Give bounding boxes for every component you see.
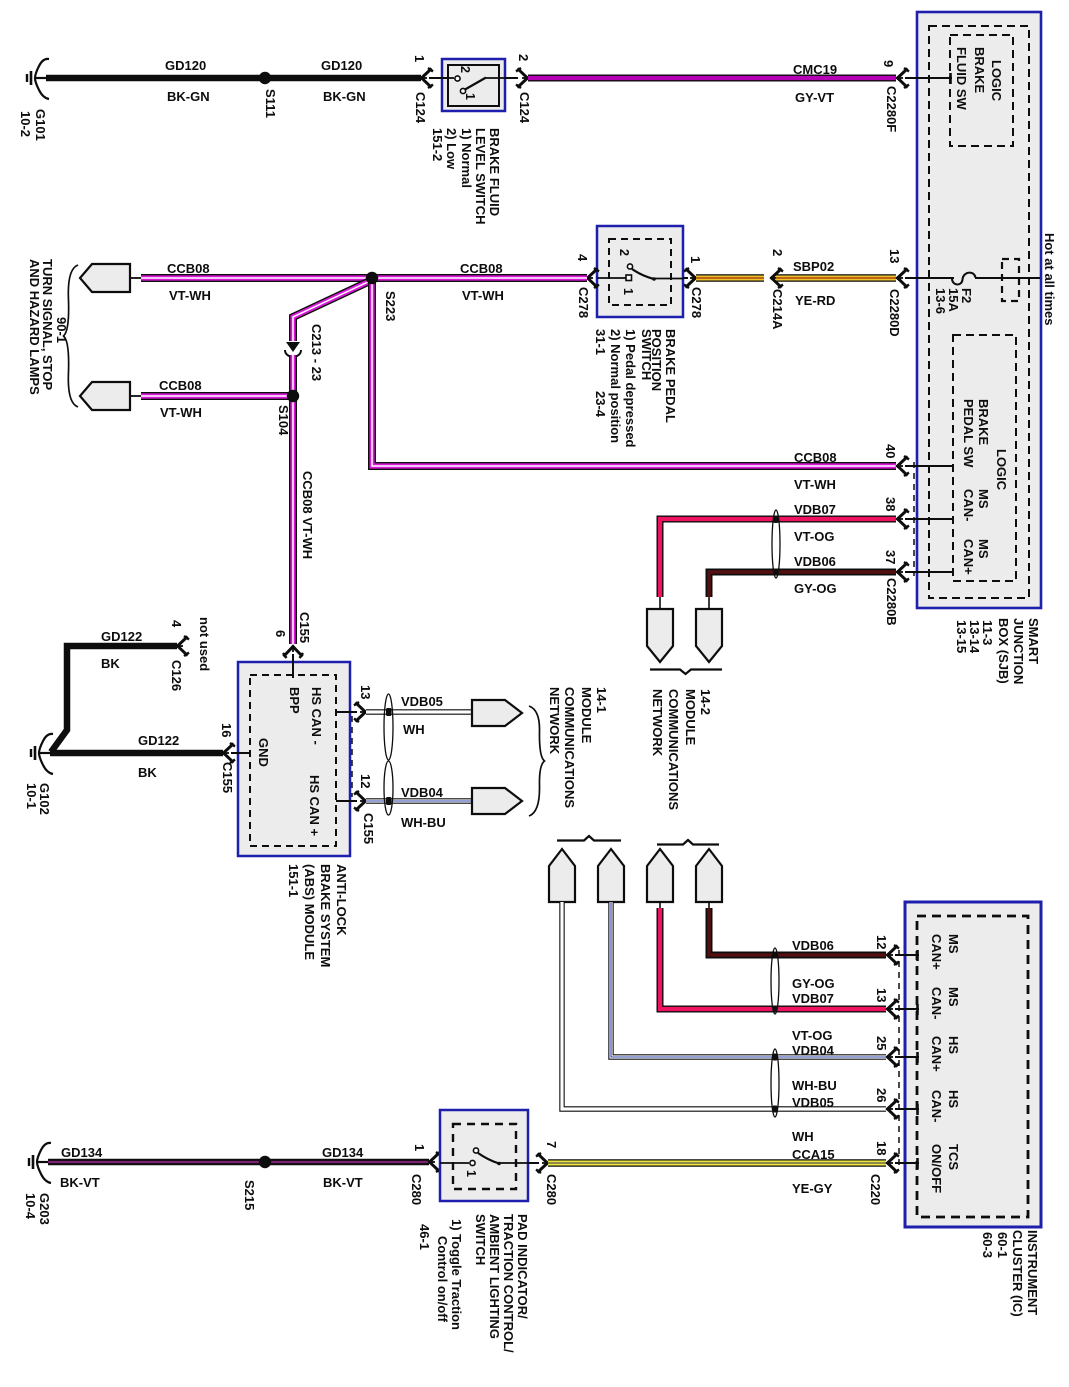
svg-text:C155: C155 (361, 813, 376, 844)
inline connector C214A (770, 268, 783, 288)
label INSTRUMENT CLUSTER (IC) 60-1 60-3 (980, 1230, 1040, 1317)
pin label 1 (pad switch) (464, 1170, 478, 1177)
svg-text:37: 37 (883, 550, 898, 564)
wire stub pin 13 (IC) (895, 1004, 919, 1015)
svg-text:BK-GN: BK-GN (323, 89, 366, 104)
wire VDB04 (ABS to 14-1 connector) (366, 798, 472, 803)
svg-text:C155: C155 (297, 612, 312, 643)
svg-text:VDB07: VDB07 (794, 502, 836, 517)
wire stub pin 37 (905, 571, 953, 573)
svg-text:GD120: GD120 (321, 58, 362, 73)
label GD122 BK (lower) (138, 733, 179, 780)
svg-text:HS CAN -: HS CAN - (309, 687, 324, 745)
svg-text:GD120: GD120 (165, 58, 206, 73)
wire stub pin 9 into SJB (905, 73, 952, 84)
label C220 (868, 1174, 883, 1205)
svg-text:TCS: TCS (946, 1144, 961, 1170)
pin label 2 (bpp switch) (617, 249, 631, 256)
wire stub pin 13 (ABS) (336, 711, 357, 713)
pin 4 of C126 (169, 620, 189, 656)
wire SBP02 segment (C214A to SJB pin 13) (776, 274, 896, 282)
splice S111 (259, 72, 271, 84)
label BPP (287, 687, 302, 714)
svg-text:VDB04: VDB04 (401, 785, 444, 800)
svg-text:S215: S215 (242, 1180, 257, 1210)
svg-text:2) Normal position: 2) Normal position (608, 329, 623, 443)
wire stub pin 6 into ABS (292, 654, 294, 678)
connector arrow to IC (VDB06) (696, 849, 722, 902)
connector C220 dashed group line (898, 950, 900, 1168)
svg-text:CMC19: CMC19 (793, 62, 837, 77)
svg-text:VT-OG: VT-OG (794, 529, 834, 544)
pin label 2 inside switch (458, 66, 472, 73)
label CCB08 VT-WH (lower) (159, 378, 202, 420)
pin 26 of C220 (874, 1088, 899, 1119)
switch contact 1 (C124) (460, 88, 465, 93)
label C124 (right) (517, 92, 532, 124)
label TCS ON/OFF (929, 1144, 961, 1193)
svg-text:(ABS) MODULE: (ABS) MODULE (302, 864, 317, 960)
fuse holder dashed box (1002, 259, 1019, 301)
svg-text:1: 1 (412, 55, 427, 62)
wire CCB08 (upper lamp to S223) (141, 274, 372, 282)
wire stub pin 26 (IC) (895, 1104, 919, 1115)
svg-text:MODULE: MODULE (579, 687, 594, 744)
svg-text:not used: not used (197, 617, 212, 671)
wire CCB08 (S104 down to ABS pin 6) (289, 396, 297, 644)
wire stub pin 40 (905, 465, 953, 467)
pin 13 of C155 (354, 685, 373, 722)
wire GD134 (G203 to S215) (48, 1159, 265, 1166)
label VDB07 VT-OG (IC) (792, 991, 834, 1043)
pin label 1 (bpp switch) (621, 288, 635, 295)
svg-text:HS: HS (946, 1036, 961, 1054)
svg-text:MS: MS (946, 934, 961, 954)
svg-text:2: 2 (458, 66, 472, 73)
label TURN SIGNAL STOP AND HAZARD LAMPS (27, 259, 55, 395)
label SBP02 YE-RD (793, 259, 835, 308)
wire GD122 (G102 to ABS pin 16) (50, 750, 223, 757)
svg-text:1: 1 (688, 256, 703, 263)
pin 2 of C124 (505, 54, 531, 88)
svg-text:2: 2 (770, 249, 785, 256)
brake pedal position switch box (597, 226, 683, 317)
svg-text:CCB08 VT-WH: CCB08 VT-WH (300, 471, 315, 559)
label C214A (770, 289, 785, 330)
svg-text:WH: WH (792, 1129, 814, 1144)
bracket 14-2 network (650, 670, 722, 675)
svg-text:C220: C220 (868, 1174, 883, 1205)
label S111 (263, 89, 278, 118)
svg-text:1: 1 (412, 1144, 427, 1151)
svg-text:C126: C126 (169, 660, 184, 691)
svg-text:C155: C155 (220, 762, 235, 793)
brake pedal sw logic dashed box (953, 335, 1016, 581)
svg-text:VT-WH: VT-WH (169, 288, 211, 303)
wire CCB08 (lower lamp to S104) (141, 392, 293, 400)
svg-text:C2280D: C2280D (887, 289, 902, 337)
svg-text:HS CAN +: HS CAN + (307, 775, 322, 836)
svg-text:WH-BU: WH-BU (792, 1078, 837, 1093)
label C278 (left) (576, 287, 591, 318)
svg-text:SMART: SMART (1026, 618, 1041, 664)
label VDB06 GY-OG (IC) (792, 938, 835, 991)
svg-text:25: 25 (874, 1036, 889, 1050)
svg-text:C278: C278 (689, 287, 704, 318)
label 46-1 (417, 1224, 432, 1250)
connector C155 dashed group line (351, 716, 353, 797)
label C126 (169, 660, 184, 691)
ABS module box (238, 662, 350, 856)
svg-text:VDB06: VDB06 (792, 938, 834, 953)
svg-text:LOGIC: LOGIC (989, 60, 1004, 102)
label HS CAN + (ABS) (307, 775, 322, 836)
svg-text:WH: WH (403, 722, 425, 737)
wire CMC19 (C124 to SJB pin 9) (528, 75, 896, 82)
svg-text:60-3: 60-3 (980, 1232, 995, 1258)
twisted pair symbol (VDB05/VDB04 at ABS) (384, 694, 393, 815)
svg-text:S223: S223 (383, 291, 398, 321)
svg-text:VDB07: VDB07 (792, 991, 834, 1006)
wire GD134 (S215 to C280 pin 1) (265, 1159, 429, 1166)
label C124 (left) (413, 92, 428, 124)
label S215 (242, 1180, 257, 1210)
splice S223 (366, 272, 378, 284)
svg-text:CAN+: CAN+ (929, 934, 944, 970)
svg-text:1: 1 (463, 93, 477, 100)
svg-text:BK-GN: BK-GN (167, 89, 210, 104)
SJB box (917, 12, 1041, 608)
svg-text:23-4: 23-4 (593, 391, 608, 418)
svg-text:GD122: GD122 (101, 629, 142, 644)
label CCB08 VT-WH (pin 40) (794, 450, 837, 492)
pin 1 of C278 (683, 256, 703, 288)
svg-text:C124: C124 (413, 92, 428, 124)
svg-text:13-6: 13-6 (933, 288, 948, 314)
label C213 - 23 (309, 324, 324, 381)
svg-text:C124: C124 (517, 92, 532, 124)
wire stub pin 12 (IC) (895, 950, 919, 961)
connector C2280B dashed group line (913, 462, 915, 576)
pin 12 of C155 (354, 774, 373, 811)
label G102 10-1 (24, 783, 52, 815)
label Hot at all times (1042, 233, 1057, 325)
svg-text:12: 12 (358, 774, 373, 788)
label C2280D (887, 289, 902, 337)
svg-text:NETWORK: NETWORK (547, 687, 562, 755)
svg-text:C2280B: C2280B (884, 578, 899, 626)
svg-text:BK-VT: BK-VT (60, 1175, 100, 1190)
label GD122 BK (upper) (101, 629, 142, 671)
wire VDB06 (SJB pin 37 to connector) (709, 572, 896, 610)
wire VDB06 (connector to IC pin 12) (709, 902, 886, 955)
svg-text:MS: MS (976, 489, 991, 509)
svg-text:ON/OFF: ON/OFF (929, 1144, 944, 1193)
wire stub pin 25 (IC) (895, 1052, 919, 1063)
label CMC19 GY-VT (793, 62, 837, 105)
svg-text:1) Pedal depressed: 1) Pedal depressed (623, 329, 638, 448)
svg-text:13: 13 (874, 988, 889, 1002)
svg-text:CCA15: CCA15 (792, 1147, 835, 1162)
inline connector C213-23 (285, 342, 301, 357)
label GD120 BK-GN (right) (321, 58, 366, 104)
connector arrow 14-1 (VDB04) (472, 788, 522, 814)
svg-text:COMMUNICATIONS: COMMUNICATIONS (562, 687, 577, 808)
label C2280F (884, 86, 899, 132)
svg-text:C214A: C214A (770, 289, 785, 330)
svg-text:60-1: 60-1 (995, 1232, 1010, 1258)
pin 13 of C2280D (887, 249, 909, 288)
wire stub pin 13 to fuse (905, 277, 954, 279)
svg-text:31-1: 31-1 (593, 329, 608, 355)
label C280 (right) (544, 1174, 559, 1205)
label SMART JUNCTION BOX (SJB) (954, 618, 1041, 684)
label 14-1 MODULE COMMUNICATIONS NETWORK (547, 687, 609, 808)
label CCB08 VT-WH (vertical) (300, 471, 315, 559)
svg-text:WH-BU: WH-BU (401, 815, 446, 830)
label MS CAN+ (961, 539, 991, 575)
label VDB05 WH (IC) (792, 1095, 834, 1144)
wire VDB07 (SJB pin 38 to connector) (660, 519, 896, 610)
splice S104 (287, 390, 299, 402)
label C155 (pin 16) (220, 762, 235, 793)
pin 7 of C280 (528, 1141, 559, 1173)
svg-text:46-1: 46-1 (417, 1224, 432, 1250)
bracket 14-2 network (lower) (657, 840, 719, 845)
label S223 (383, 291, 398, 321)
svg-text:14-2: 14-2 (698, 689, 713, 715)
connector arrow to IC (VDB05) (549, 849, 575, 902)
svg-text:C213 - 23: C213 - 23 (309, 324, 324, 381)
svg-text:YE-RD: YE-RD (795, 293, 835, 308)
svg-text:PEDAL SW: PEDAL SW (961, 399, 976, 468)
label LOGIC / BRAKE FLUID SW (954, 47, 1004, 111)
pin 9 of C2280F (881, 60, 909, 88)
label G101 10-2 (18, 109, 48, 141)
label GD120 BK-GN (left) (165, 58, 210, 104)
svg-text:BPP: BPP (287, 687, 302, 714)
connector arrow 14-1 (VDB05) (472, 700, 522, 726)
svg-text:SWITCH: SWITCH (473, 1214, 488, 1265)
pin 2 of C214A (770, 249, 785, 256)
label 90-1 (54, 317, 69, 343)
svg-text:AND HAZARD LAMPS: AND HAZARD LAMPS (27, 259, 42, 395)
label G203 10-4 (23, 1193, 52, 1225)
label HS CAN - (ABS) (309, 687, 324, 745)
IC box (905, 902, 1041, 1227)
label CCB08 VT-WH (upper left) (167, 261, 211, 303)
svg-text:13: 13 (887, 249, 902, 263)
label ANTI-LOCK BRAKE SYSTEM (ABS) MODULE 151-1 (286, 864, 349, 967)
ground G203 (29, 1143, 51, 1183)
svg-text:C280: C280 (544, 1174, 559, 1205)
label C280 (left) (409, 1174, 424, 1205)
wire VDB05 (ABS to 14-1 connector) (366, 709, 472, 714)
svg-text:CAN-: CAN- (929, 1090, 944, 1123)
pin 1 of C280 (412, 1144, 441, 1172)
svg-text:PAD INDICATOR/: PAD INDICATOR/ (515, 1214, 530, 1319)
pin 4 of C278 (575, 254, 599, 288)
svg-text:4: 4 (169, 620, 184, 628)
switch pivot circle (627, 264, 632, 269)
wire VDB04 (connector to IC pin 25) (611, 902, 886, 1057)
svg-text:BOX (SJB): BOX (SJB) (996, 618, 1011, 684)
wire stub into brake fluid level switch (429, 77, 448, 79)
label C2280B (884, 578, 899, 626)
label GND (256, 738, 271, 767)
svg-text:7: 7 (544, 1141, 559, 1148)
svg-text:VT-WH: VT-WH (462, 288, 504, 303)
switch contact 2 (C124) (448, 76, 460, 81)
svg-text:CAN+: CAN+ (929, 1036, 944, 1072)
label BRAKE PEDAL SW (961, 399, 991, 468)
svg-text:BRAKE: BRAKE (972, 47, 987, 94)
svg-text:FLUID SW: FLUID SW (954, 47, 969, 111)
svg-text:VDB06: VDB06 (794, 554, 836, 569)
bracket 14-1 network (lower) (557, 836, 621, 841)
svg-text:CAN-: CAN- (929, 987, 944, 1020)
svg-text:LOGIC: LOGIC (994, 449, 1009, 491)
svg-text:VDB05: VDB05 (792, 1095, 834, 1110)
label S104 (276, 405, 291, 436)
svg-text:10-4: 10-4 (23, 1193, 38, 1220)
connector arrow to IC (VDB04) (598, 849, 624, 902)
svg-text:151-1: 151-1 (286, 864, 301, 897)
svg-text:TRACTION CONTROL/: TRACTION CONTROL/ (501, 1214, 516, 1353)
pad switch contact (440, 1160, 475, 1165)
svg-text:6: 6 (273, 630, 288, 637)
wire CCB08 diagonal (S223 to C213-23) (293, 281, 370, 341)
svg-text:GY-OG: GY-OG (792, 976, 835, 991)
svg-text:9: 9 (881, 60, 896, 67)
svg-text:18: 18 (874, 1141, 889, 1155)
svg-text:CCB08: CCB08 (794, 450, 837, 465)
label VDB07 VT-OG (upper) (794, 502, 836, 544)
twisted pair symbol (VDB04/VDB05 at IC) (771, 1049, 779, 1117)
bpp switch blade (632, 269, 683, 281)
wire stub pin 38 (905, 518, 953, 520)
pin 18 of C220 (874, 1141, 899, 1173)
splice S215 (259, 1156, 271, 1168)
svg-text:13: 13 (358, 685, 373, 699)
svg-text:38: 38 (883, 497, 898, 511)
ground G101 (27, 59, 49, 99)
svg-text:10-1: 10-1 (24, 783, 39, 809)
svg-text:BK: BK (101, 656, 120, 671)
svg-text:GY-VT: GY-VT (795, 90, 834, 105)
wire stub pin 16 into ABS (231, 752, 250, 754)
svg-text:BK-VT: BK-VT (323, 1175, 363, 1190)
brake fluid level switch box (442, 59, 505, 111)
label 14-2 MODULE COMMUNICATIONS NETWORK (650, 689, 713, 810)
svg-text:ANTI-LOCK: ANTI-LOCK (334, 864, 349, 936)
pin 16 of C155 (219, 723, 235, 763)
wire stub lamp lower (130, 395, 142, 397)
svg-text:MS: MS (976, 539, 991, 559)
svg-text:VDB05: VDB05 (401, 694, 443, 709)
svg-text:S104: S104 (276, 405, 291, 436)
brake fluid sw logic dashed box (950, 35, 1013, 146)
wire stub pin 18 (IC) (895, 1158, 919, 1169)
svg-text:1) Normal: 1) Normal (459, 128, 474, 188)
svg-text:2: 2 (516, 54, 531, 61)
pin 13 of C220 (874, 988, 899, 1019)
pad switch pivot circle (473, 1148, 478, 1153)
label C155 (top) (297, 612, 312, 643)
svg-text:LEVEL SWITCH: LEVEL SWITCH (473, 128, 488, 225)
label HS CAN- (IC) (929, 1090, 961, 1123)
svg-text:GY-OG: GY-OG (794, 581, 837, 596)
label VDB04 WH-BU (left) (401, 785, 446, 830)
svg-text:Hot at all times: Hot at all times (1042, 233, 1057, 325)
pin 37 of C2280B (883, 550, 909, 582)
pad switch box (440, 1110, 528, 1201)
wire stub pin 12 (ABS) (336, 800, 357, 802)
twisted pair symbol (VDB07/VDB06 at SJB) (772, 510, 780, 578)
svg-text:CCB08: CCB08 (159, 378, 202, 393)
label F2 15A 13-6 (933, 288, 974, 314)
svg-text:BRAKE: BRAKE (976, 399, 991, 446)
svg-text:GD122: GD122 (138, 733, 179, 748)
svg-text:10-2: 10-2 (18, 111, 33, 137)
label CCB08 VT-WH (upper right) (460, 261, 504, 303)
wire CCA15 (C280 to IC pin 18) (548, 1159, 886, 1167)
wire GD120 segment 1 (G101 to S111) (46, 75, 265, 82)
label MS CAN- (IC) (929, 987, 961, 1020)
turn signal lamp arrow (lower) (80, 382, 130, 410)
ground G102 (31, 734, 53, 774)
label VDB04 WH-BU (IC) (792, 1043, 837, 1093)
label GD134 BK-VT (right) (322, 1145, 364, 1190)
svg-text:AMBIENT LIGHTING: AMBIENT LIGHTING (487, 1214, 502, 1339)
label BRAKE PEDAL POSITION SWITCH notes (593, 329, 678, 448)
svg-text:G101: G101 (33, 109, 48, 141)
pin 25 of C220 (874, 1036, 899, 1067)
svg-text:C2280F: C2280F (884, 86, 899, 132)
svg-text:VDB04: VDB04 (792, 1043, 835, 1058)
svg-text:1: 1 (621, 288, 635, 295)
SJB outer dashed boundary (929, 26, 1029, 598)
svg-text:26: 26 (874, 1088, 889, 1102)
pin label 1 inside switch (463, 93, 477, 100)
wire VDB07 (connector to IC pin 13) (660, 902, 886, 1009)
svg-text:12: 12 (874, 935, 889, 949)
wire CCB08 (S223 to SJB pin 40) (372, 278, 896, 466)
wire stub lamp upper (130, 277, 142, 279)
svg-text:SBP02: SBP02 (793, 259, 834, 274)
svg-text:VT-OG: VT-OG (792, 1028, 832, 1043)
label VDB05 WH (left) (401, 694, 443, 737)
brace turn signal lamps (64, 265, 79, 407)
twisted pair symbol (VDB06/VDB07 at IC) (771, 948, 779, 1014)
connector arrow to IC (VDB07) (647, 849, 673, 902)
svg-text:BRAKE PEDAL: BRAKE PEDAL (663, 329, 678, 423)
pin 6 of C155 (ABS top) (273, 630, 303, 658)
svg-text:2) Low: 2) Low (444, 128, 459, 170)
label PAD INDICATOR TRACTION CONTROL AMBIENT LIGHTING SWITCH notes (435, 1214, 530, 1353)
svg-text:151-2: 151-2 (430, 128, 445, 161)
label VDB06 GY-OG (upper) (794, 554, 837, 596)
svg-text:MS: MS (946, 987, 961, 1007)
svg-text:CCB08: CCB08 (460, 261, 503, 276)
svg-text:CAN-: CAN- (961, 489, 976, 522)
svg-text:MODULE: MODULE (683, 689, 698, 746)
fuse F2 15A (952, 273, 1040, 285)
label GD134 BK-VT (left) (60, 1145, 103, 1190)
svg-text:VT-WH: VT-WH (794, 477, 836, 492)
wire CCB08 (S223 to C278 pin 4) (372, 274, 587, 282)
turn signal lamp arrow (upper) (80, 264, 130, 292)
